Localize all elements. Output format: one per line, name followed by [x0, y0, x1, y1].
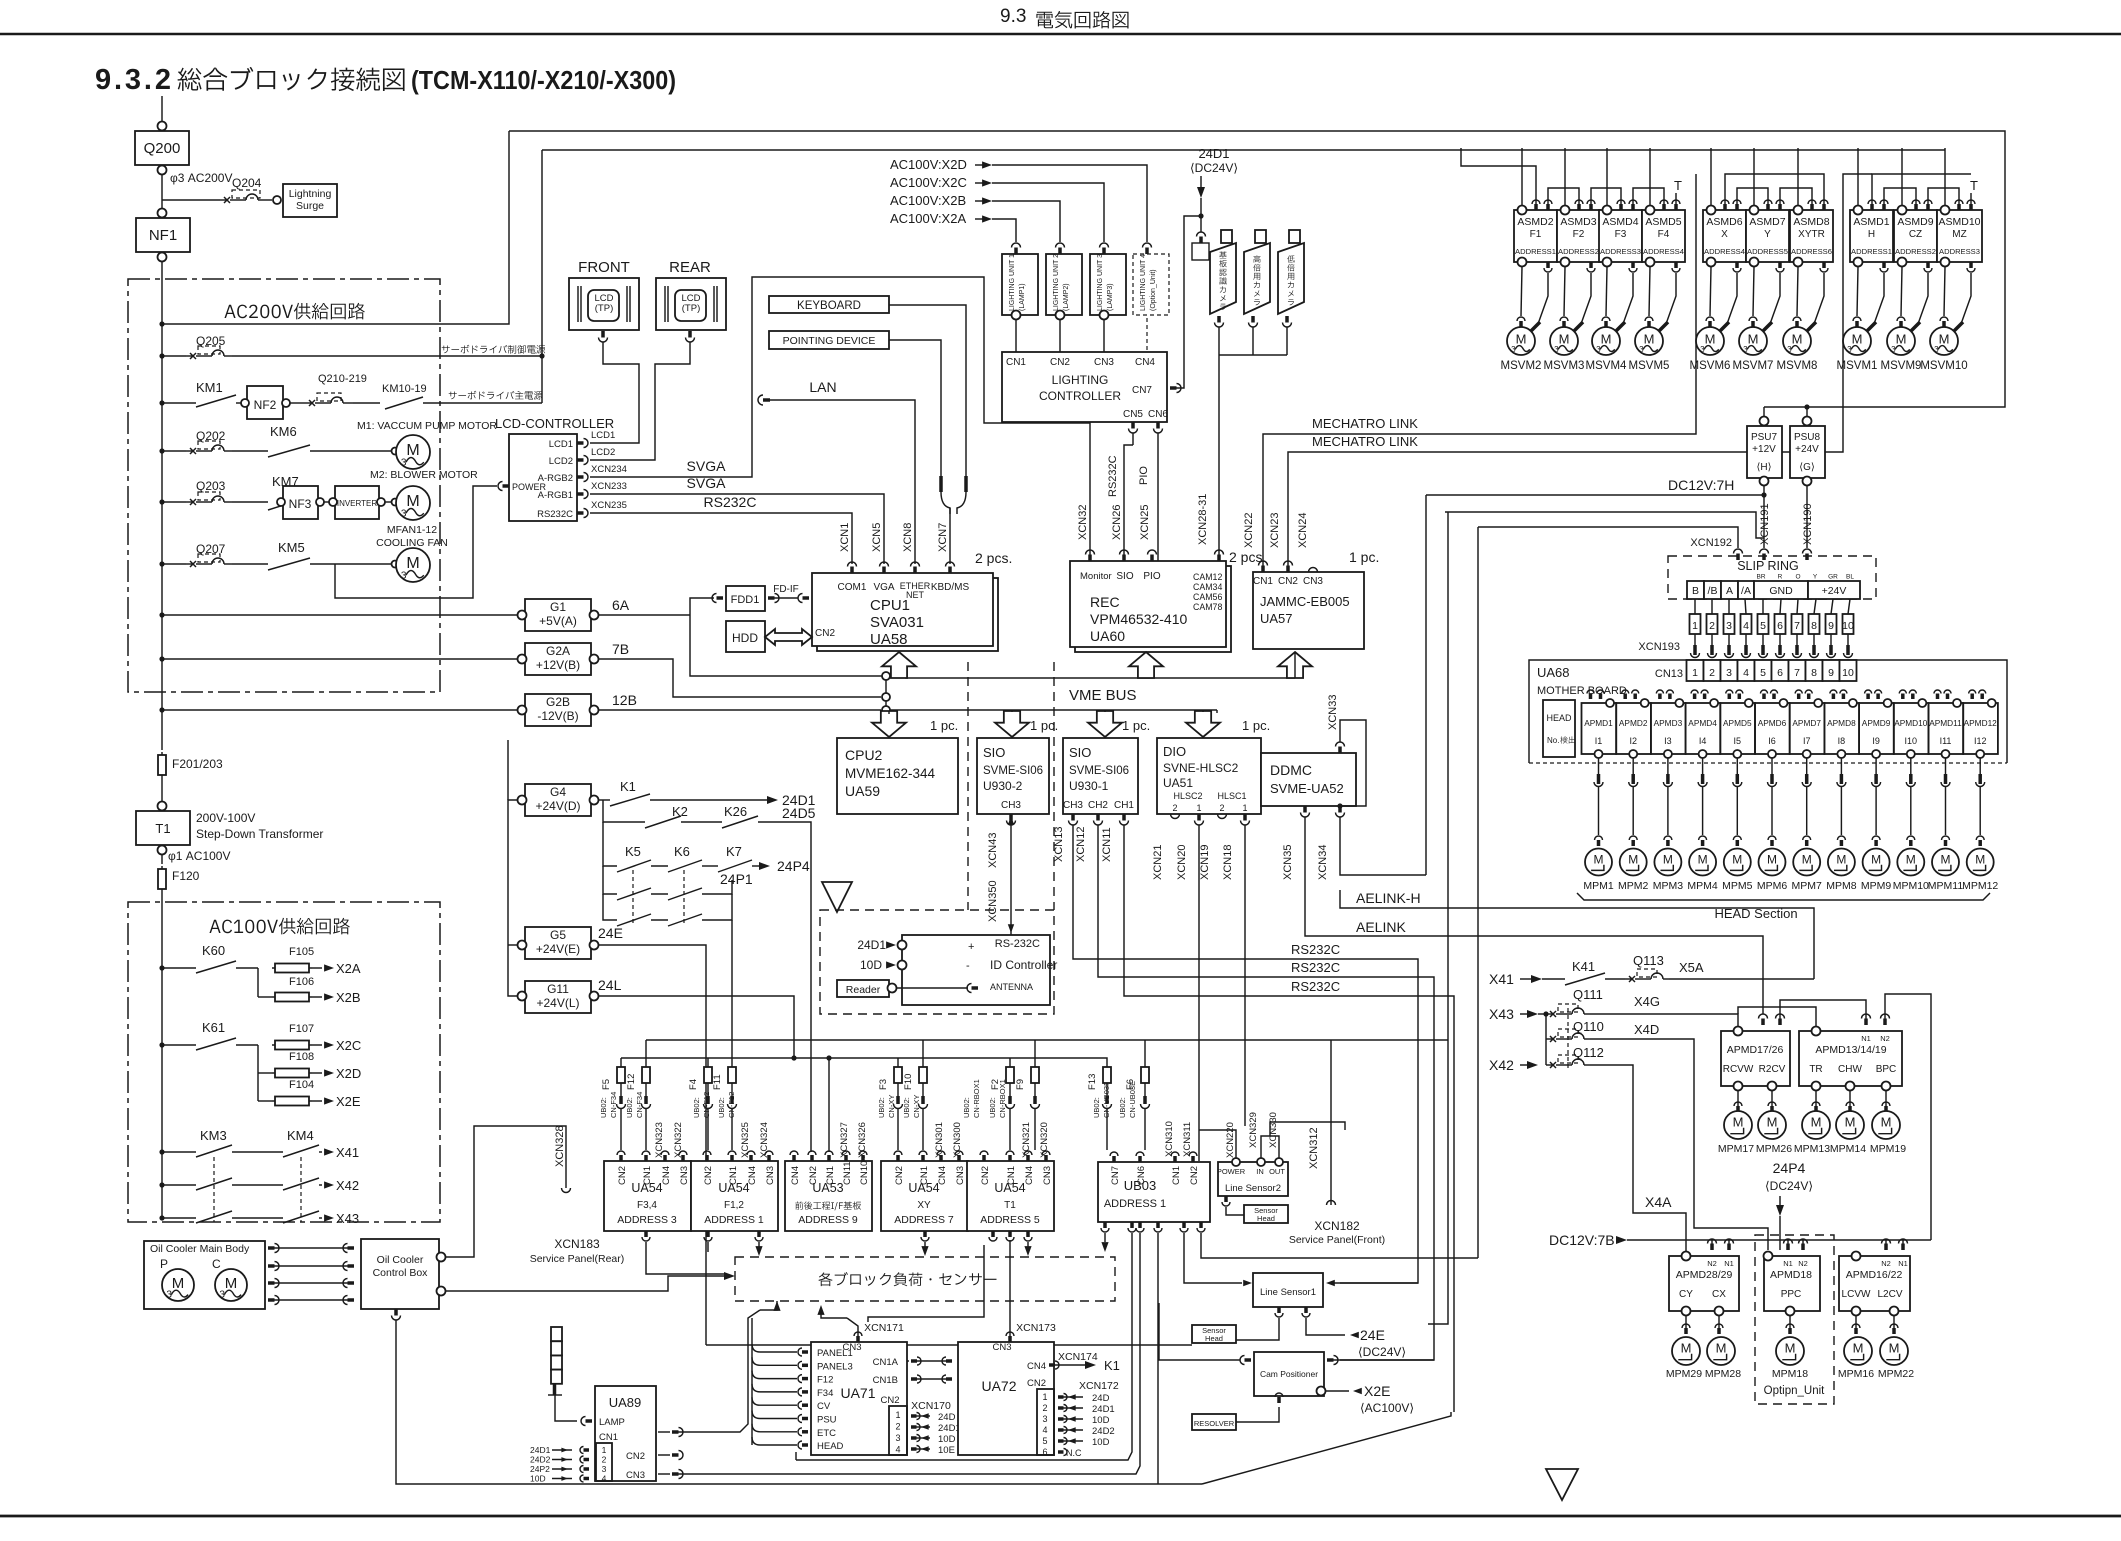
svg-text:TR: TR	[1809, 1064, 1822, 1075]
svg-text:ADDRESS2: ADDRESS2	[1895, 247, 1936, 256]
svg-text:M: M	[1748, 332, 1759, 347]
svg-text:X2B: X2B	[336, 990, 361, 1005]
svg-text:9: 9	[1828, 620, 1834, 632]
svg-text:XCN13: XCN13	[1053, 827, 1065, 862]
axis driver APMD3	[1651, 703, 1686, 754]
contact row 3	[603, 894, 617, 920]
svg-text:9: 9	[1828, 667, 1834, 679]
svg-text:(TP): (TP)	[682, 303, 700, 314]
servo motor MSVM10	[1944, 267, 1945, 316]
lamp controller UA89	[595, 1386, 656, 1481]
servo amp ASMD1 H	[1850, 210, 1893, 262]
wire bus to ASMD6	[1710, 148, 1712, 205]
svg-text:2 pcs.: 2 pcs.	[1229, 549, 1266, 565]
svg-text:MPM9: MPM9	[1861, 880, 1891, 892]
svg-text:24D2: 24D2	[1092, 1426, 1115, 1437]
svg-text:K6: K6	[674, 844, 690, 859]
svg-text:T1: T1	[1004, 1200, 1016, 1211]
svg-text:F12: F12	[626, 1074, 637, 1090]
svg-text:APMD11: APMD11	[1929, 718, 1962, 728]
axis driver APMD11	[1929, 703, 1964, 754]
svg-text:-12V(B): -12V(B)	[537, 709, 578, 723]
axis driver APMD4	[1686, 703, 1721, 754]
svg-text:LIGHTING UNIT 4: LIGHTING UNIT 4	[1140, 254, 1147, 311]
svg-text:UB02:: UB02:	[877, 1097, 886, 1118]
svg-text:⟨DC24V⟩: ⟨DC24V⟩	[1358, 1345, 1406, 1359]
svg-text:F1,2: F1,2	[724, 1200, 744, 1211]
breaker NF1	[136, 218, 190, 252]
svg-text:24E: 24E	[598, 925, 623, 941]
VME bus lower rail	[890, 709, 1217, 711]
svg-text:CN1: CN1	[825, 1166, 836, 1185]
breaker Q112 to X4A	[1545, 1039, 1547, 1065]
wire ASMD4 to MSVM4 power	[1623, 273, 1633, 324]
svg-text:OUT: OUT	[1269, 1167, 1285, 1176]
wire ASMD1 to MSVM1 power	[1874, 273, 1884, 324]
servo motor MSVM2	[1521, 267, 1522, 316]
svg-text:I12: I12	[1974, 736, 1987, 746]
svg-text:MPM7: MPM7	[1792, 880, 1822, 892]
wire ASMD10 to MSVM10 power	[1961, 273, 1971, 324]
svg-text:F12: F12	[817, 1375, 833, 1386]
svg-text:24D: 24D	[1092, 1393, 1110, 1404]
servo motor MSVM6	[1710, 267, 1711, 316]
svg-text:SVA031: SVA031	[870, 614, 924, 631]
svg-text:⟨H⟩: ⟨H⟩	[1756, 462, 1771, 473]
svg-text:REAR: REAR	[669, 259, 711, 276]
chain from MECHATRO to ASMD2	[1461, 148, 1536, 204]
svg-text:⟨G⟩: ⟨G⟩	[1799, 462, 1815, 473]
svg-text:4: 4	[1743, 667, 1749, 679]
svg-text:MSVM4: MSVM4	[1586, 360, 1628, 372]
fuses above UA54 row	[620, 1064, 622, 1086]
svg-text:1: 1	[1196, 803, 1201, 813]
svg-text:LCD-CONTROLLER: LCD-CONTROLLER	[495, 416, 614, 431]
svg-text:XCN25: XCN25	[1139, 505, 1151, 540]
svg-text:MPM8: MPM8	[1826, 880, 1856, 892]
svg-text:XCN321: XCN321	[1021, 1122, 1032, 1158]
svg-text:9.3: 9.3	[1000, 6, 1026, 27]
svg-text:N2: N2	[1881, 1259, 1891, 1268]
svg-text:PSU7: PSU7	[1751, 432, 1778, 443]
svg-text:XCN8: XCN8	[902, 523, 914, 552]
svg-text:KM6: KM6	[270, 424, 297, 439]
wire FRONT LCD to LCD1	[590, 342, 639, 443]
svg-text:ADDRESS 3: ADDRESS 3	[617, 1214, 677, 1226]
svg-text:10: 10	[1842, 620, 1854, 632]
svg-text:XCN312: XCN312	[1308, 1127, 1320, 1169]
wire phi3 AC200V	[161, 175, 163, 213]
svg-text:X2E: X2E	[336, 1094, 361, 1109]
svg-text:10D: 10D	[1092, 1415, 1110, 1426]
svg-text:XYTR: XYTR	[1798, 229, 1825, 240]
SVGA wire XCN234 to REC monitor	[590, 277, 1090, 564]
svg-text:M: M	[1792, 332, 1803, 347]
power supply PSU7 +12V	[1747, 426, 1782, 478]
svg-text:XCN235: XCN235	[591, 500, 627, 511]
svg-text:X43: X43	[336, 1211, 359, 1226]
svg-text:NF1: NF1	[149, 227, 177, 244]
svg-text:APMD17/26: APMD17/26	[1727, 1044, 1784, 1056]
option unit dashed box	[1755, 1235, 1834, 1404]
svg-text:XCN28-31: XCN28-31	[1197, 494, 1209, 545]
RS232C wire 3 to bottom loop	[1124, 825, 1454, 1412]
svg-text:F120: F120	[172, 869, 200, 883]
svg-text:CN4: CN4	[937, 1166, 948, 1185]
svg-text:3: 3	[401, 508, 407, 519]
svg-text:3: 3	[166, 1290, 172, 1301]
svg-text:XCN33: XCN33	[1327, 695, 1339, 730]
wire L1 to AC200V bus	[162, 131, 509, 324]
svg-text:Reader: Reader	[846, 984, 881, 996]
svg-text:CZ: CZ	[1909, 229, 1922, 240]
svg-text:GR: GR	[1828, 574, 1838, 581]
svg-text:MPM22: MPM22	[1878, 1368, 1914, 1380]
wire X4A from Q112 to APMD28/29	[1590, 1065, 1686, 1256]
svg-text:F108: F108	[289, 1051, 314, 1063]
AELINK-H wire	[1340, 817, 1426, 875]
CN13 terminal row	[1687, 660, 1704, 681]
svg-text:APMD12: APMD12	[1964, 718, 1998, 728]
head motor MPM3	[1654, 849, 1681, 876]
svg-text:CN7: CN7	[1110, 1166, 1121, 1185]
svg-text:ADDRESS 5: ADDRESS 5	[980, 1214, 1040, 1226]
svg-text:I7: I7	[1803, 736, 1811, 746]
svg-text:1: 1	[602, 1445, 607, 1455]
svg-text:+12V(B): +12V(B)	[536, 658, 580, 672]
svg-text:6A: 6A	[612, 597, 630, 613]
svg-text:DIO: DIO	[1163, 744, 1186, 759]
svg-text:APMD3: APMD3	[1654, 718, 1683, 728]
svg-text:(LAMP3): (LAMP3)	[1107, 283, 1114, 311]
svg-text:UA71: UA71	[840, 1385, 875, 1401]
servo amp ASMD10 MZ	[1937, 210, 1982, 262]
I/O unit UA72	[958, 1342, 1054, 1455]
wire 12B to VME feed	[598, 709, 881, 711]
wire APMD11 to motor MPM11	[1945, 758, 1947, 774]
svg-text:M: M	[1941, 852, 1951, 866]
sensor head 2 box	[1222, 1202, 1230, 1206]
svg-text:2: 2	[1042, 1403, 1047, 1413]
resolver box	[1192, 1414, 1236, 1430]
long verticals from UB03 down	[796, 1233, 1132, 1460]
svg-text:CHW: CHW	[1838, 1064, 1862, 1075]
svg-text:I2: I2	[1629, 736, 1637, 746]
svg-text:1: 1	[895, 1410, 900, 1420]
svg-text:MPM14: MPM14	[1830, 1143, 1866, 1155]
svg-text:G5: G5	[550, 928, 566, 942]
svg-text:UA68: UA68	[1537, 665, 1570, 680]
svg-text:F104: F104	[289, 1079, 314, 1091]
svg-text:XCN1: XCN1	[839, 523, 851, 552]
fuse F201/203	[161, 752, 163, 778]
24E rail from G5	[706, 1344, 1192, 1346]
svg-text:200V-100V: 200V-100V	[196, 811, 255, 825]
DDMC SVME-UA52	[1261, 753, 1356, 806]
wire keyboard to XCN7	[889, 305, 966, 476]
svg-text:M2: BLOWER MOTOR: M2: BLOWER MOTOR	[370, 469, 478, 481]
svg-text:XCN23: XCN23	[1269, 513, 1281, 548]
svg-text:Control Box: Control Box	[373, 1267, 429, 1279]
svg-text:CN4: CN4	[1024, 1166, 1035, 1185]
svg-text:G2A: G2A	[546, 644, 570, 658]
svg-text:RS-232C: RS-232C	[995, 938, 1040, 950]
power supply PSU8 +24V	[1790, 426, 1825, 478]
svg-text:ADDRESS5: ADDRESS5	[1747, 247, 1788, 256]
svg-text:AC100V:X2C: AC100V:X2C	[890, 175, 967, 190]
svg-text:XCN301: XCN301	[934, 1122, 945, 1158]
svg-text:M: M	[1906, 852, 1916, 866]
head motor MPM8	[1828, 849, 1855, 876]
svg-text:7: 7	[1794, 620, 1800, 632]
svg-text:Line Sensor2: Line Sensor2	[1225, 1183, 1281, 1194]
svg-text:XCN173: XCN173	[1016, 1322, 1056, 1334]
wire X4G to APMD17 circle	[1590, 1014, 1738, 1027]
ladder linkage dashed	[632, 870, 634, 924]
lighting unit 4 (Option_Unit) dashed	[1143, 243, 1152, 248]
svg-text:CN4: CN4	[1027, 1361, 1046, 1372]
svg-text:M: M	[1628, 852, 1638, 866]
svg-text:ID Controller: ID Controller	[990, 958, 1057, 972]
svg-text:10D: 10D	[530, 1474, 546, 1484]
svg-text:BR: BR	[1756, 574, 1765, 581]
wire UA89 top pin to UA71 feeder	[677, 1310, 760, 1432]
svg-text:CN1B: CN1B	[873, 1375, 898, 1386]
DDMC pins XCN35 XCN34	[1301, 813, 1310, 818]
svg-text:24D1: 24D1	[857, 938, 886, 952]
wire phi1 AC100V	[161, 855, 163, 864]
contact row 2 to 24P1	[603, 866, 617, 894]
wire ASMD6 to MSVM6 power	[1727, 273, 1737, 324]
svg-text:MPM6: MPM6	[1757, 880, 1787, 892]
axis driver APMD6	[1755, 703, 1790, 754]
SIO1 pins XCN13 XCN12 XCN11	[1069, 821, 1078, 826]
svg-text:CN3: CN3	[626, 1470, 645, 1481]
wire 7B to VME feed	[598, 659, 881, 697]
svg-text:XCN234: XCN234	[591, 464, 627, 475]
svg-text:APMD5: APMD5	[1723, 718, 1752, 728]
I/O board UA54 ADDRESS 5	[967, 1161, 1054, 1231]
svg-text:APMD9: APMD9	[1862, 718, 1891, 728]
svg-text:8: 8	[1811, 620, 1817, 632]
servo motor MSVM8	[1797, 267, 1798, 316]
chain terminator T stubs	[1675, 193, 1677, 204]
svg-text:Q203: Q203	[196, 479, 226, 493]
svg-text:K1: K1	[1104, 1358, 1120, 1373]
svg-text:CN2: CN2	[1027, 1378, 1046, 1389]
UA71 feeder arcs	[751, 1318, 753, 1445]
inverted triangle symbol upper	[822, 882, 852, 912]
svg-text:XCN350: XCN350	[987, 880, 999, 922]
svg-text:CN2: CN2	[626, 1451, 645, 1462]
SIO SVME-SI06 U930-2	[977, 738, 1049, 814]
RS232C wire XCN235 to XCN1	[590, 513, 852, 564]
svg-text:MECHATRO LINK: MECHATRO LINK	[1312, 434, 1418, 449]
svg-text:CN2: CN2	[808, 1166, 819, 1185]
svg-text:CN3: CN3	[842, 1342, 861, 1353]
DDMC XCN33 wire loop to XCN34	[1340, 720, 1366, 806]
svg-text:CN1: CN1	[1171, 1166, 1182, 1185]
svg-text:CPU1: CPU1	[870, 597, 910, 614]
axis driver APMD18	[1764, 1256, 1820, 1311]
svg-text:ASMD3: ASMD3	[1560, 216, 1596, 228]
svg-text:UB02:: UB02:	[599, 1097, 608, 1118]
svg-text:RS232C: RS232C	[1291, 960, 1340, 975]
svg-text:Surge: Surge	[296, 200, 324, 212]
svg-text:M: M	[1889, 1340, 1900, 1355]
motor MPM29	[1685, 1316, 1687, 1330]
svg-text:Lightning: Lightning	[289, 188, 332, 200]
line sensor2 wires up	[1199, 1130, 1236, 1158]
svg-text:CN3: CN3	[1094, 357, 1114, 368]
svg-text:ASMD10: ASMD10	[1938, 216, 1980, 228]
svg-text:M: M	[1767, 1114, 1778, 1129]
svg-text:CN3: CN3	[1042, 1166, 1053, 1185]
svg-text:XCN310: XCN310	[1164, 1121, 1175, 1157]
svg-text:CN13: CN13	[1655, 668, 1683, 680]
svg-text:KM5: KM5	[278, 540, 305, 555]
svg-text:K7: K7	[726, 844, 742, 859]
DC12V extension to APMD18 and APMD16/22	[1729, 1240, 1788, 1250]
svg-text:CN7: CN7	[1132, 385, 1152, 396]
wire APMD5 to motor MPM5	[1736, 758, 1738, 774]
wire CN6 to XCN25 REC PIO	[1154, 429, 1163, 434]
svg-text:XCN323: XCN323	[654, 1122, 665, 1158]
wires AC100V to lighting units	[992, 219, 1016, 242]
svg-text:CH3: CH3	[1063, 800, 1083, 811]
axis driver APMD12	[1963, 703, 1998, 754]
AC100V supply circuit dash-dot box	[128, 902, 440, 1222]
XCN33 pin DDMC	[1336, 742, 1345, 747]
X2E input to cam positioner	[1317, 1387, 1326, 1396]
svg-text:X43: X43	[1489, 1006, 1514, 1022]
svg-text:F4: F4	[688, 1079, 699, 1090]
svg-text:CN1: CN1	[1006, 357, 1026, 368]
RS232C wire 1 to line sensor1	[1073, 825, 1418, 1283]
svg-text:CN1A: CN1A	[873, 1357, 899, 1368]
svg-text:XCN182: XCN182	[1314, 1219, 1360, 1233]
motor MPM18	[1789, 1316, 1791, 1330]
svg-text:ADDRESS 7: ADDRESS 7	[894, 1214, 954, 1226]
axis driver APMD5	[1720, 703, 1755, 754]
chain hook2 to N1	[1780, 1000, 1866, 1025]
wire UB03 CN1 to line sensor1	[1184, 1233, 1242, 1283]
svg-text:XCN32: XCN32	[1077, 505, 1089, 540]
motor MPM19	[1885, 1091, 1887, 1108]
CPU1 board UA58	[817, 578, 998, 651]
svg-text:CAM12: CAM12	[1193, 572, 1222, 582]
svg-text:Y: Y	[1764, 229, 1771, 240]
REC top pins	[1086, 550, 1095, 555]
svg-text:XCN220: XCN220	[1225, 1122, 1236, 1158]
svg-text:F106: F106	[289, 976, 314, 988]
svg-text:MPM10: MPM10	[1893, 880, 1929, 892]
svg-text:CN1: CN1	[919, 1166, 930, 1185]
svg-text:CN2: CN2	[880, 1395, 899, 1406]
svg-text:RCVW: RCVW	[1723, 1064, 1754, 1075]
svg-text:9.3.2: 9.3.2	[95, 64, 171, 96]
svg-text:3: 3	[401, 570, 407, 581]
svg-text:5: 5	[1760, 667, 1766, 679]
svg-text:PSU8: PSU8	[1794, 432, 1821, 443]
lighting controller box	[1002, 352, 1167, 422]
svg-text:XCN183: XCN183	[554, 1237, 600, 1251]
svg-text:+5V(A): +5V(A)	[539, 614, 577, 628]
svg-text:M: M	[1767, 852, 1777, 866]
svg-text:MFAN1-12: MFAN1-12	[387, 524, 437, 536]
camera connector block	[1192, 243, 1209, 260]
svg-text:10D: 10D	[938, 1434, 956, 1445]
svg-text:VGA: VGA	[873, 582, 894, 593]
svg-text:CN1: CN1	[1253, 576, 1273, 587]
svg-text:AC100V:X2D: AC100V:X2D	[890, 157, 967, 172]
svg-text:ADDRESS3: ADDRESS3	[1939, 247, 1980, 256]
axis driver APMD8	[1824, 703, 1859, 754]
svg-text:M: M	[1559, 332, 1570, 347]
svg-text:K1: K1	[620, 779, 636, 794]
I/O board UA54 ADDRESS 7	[881, 1161, 968, 1231]
svg-text:CN1: CN1	[728, 1166, 739, 1185]
JAMMC top pins	[1259, 561, 1268, 566]
svg-text:SVME-UA52: SVME-UA52	[1270, 781, 1344, 796]
svg-text:MPM12: MPM12	[1962, 880, 1998, 892]
svg-text:Oil Cooler: Oil Cooler	[377, 1254, 424, 1266]
wire APMD7 to motor MPM7	[1806, 758, 1808, 774]
I/O board UA54 ADDRESS 1	[691, 1161, 778, 1231]
CPU2 MVME162-344 UA59	[837, 738, 958, 814]
svg-text:DC12V:7B: DC12V:7B	[1549, 1232, 1615, 1248]
svg-text:F2: F2	[1573, 229, 1585, 240]
wire line sensor1 to 24E	[1306, 1318, 1345, 1335]
svg-text:DC12V:7H: DC12V:7H	[1668, 477, 1734, 493]
head motor MPM5	[1724, 849, 1751, 876]
wire APMD12 to motor MPM12	[1979, 758, 1981, 774]
svg-text:APMD6: APMD6	[1758, 718, 1787, 728]
svg-text:H: H	[1868, 229, 1875, 240]
axis driver APMD9	[1859, 703, 1894, 754]
LAN wire	[758, 395, 763, 405]
DIO SVNE-HLSC2 UA51	[1157, 738, 1261, 814]
svg-text:UB02:: UB02:	[962, 1097, 971, 1118]
svg-text:X4G: X4G	[1634, 994, 1660, 1009]
svg-text:XCN24: XCN24	[1297, 513, 1309, 548]
svg-text:I5: I5	[1734, 736, 1742, 746]
svg-text:M: M	[1811, 1114, 1822, 1129]
svg-text:RESOLVER: RESOLVER	[1194, 1419, 1235, 1428]
camera 2 high magnification	[1244, 243, 1270, 314]
svg-text:SIO: SIO	[1069, 745, 1091, 760]
svg-text:SLIP RING: SLIP RING	[1737, 559, 1799, 573]
wire APMD4 to motor MPM4	[1702, 758, 1704, 774]
head motor MPM7	[1793, 849, 1820, 876]
wire REAR LCD to LCD2	[590, 342, 690, 460]
svg-text:ADDRESS3: ADDRESS3	[1600, 247, 1641, 256]
svg-text:X42: X42	[1489, 1057, 1514, 1073]
svg-text:N1: N1	[1724, 1259, 1734, 1268]
svg-text:CH1: CH1	[1114, 800, 1134, 811]
svg-text:CN5: CN5	[1123, 409, 1143, 420]
svg-text:CX: CX	[1712, 1289, 1726, 1300]
axis driver APMD7	[1790, 703, 1825, 754]
svg-text:Head: Head	[1205, 1334, 1223, 1343]
svg-text:KM10-19: KM10-19	[382, 383, 427, 395]
svg-text:Q111: Q111	[1573, 987, 1603, 1002]
svg-text:M: M	[1732, 852, 1742, 866]
svg-text:MPM3: MPM3	[1653, 880, 1683, 892]
svg-text:MPM18: MPM18	[1772, 1368, 1808, 1380]
lightning surge box	[283, 184, 337, 217]
svg-text:CY: CY	[1679, 1289, 1693, 1300]
